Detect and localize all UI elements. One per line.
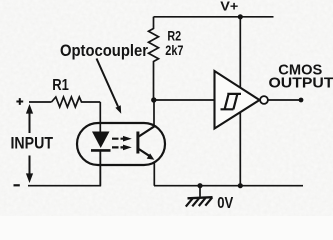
svg-text:0V: 0V xyxy=(217,195,233,212)
svg-text:INPUT: INPUT xyxy=(11,135,54,153)
transistor Q1 emitter xyxy=(138,149,149,156)
wire inverter bottom to 0V rail xyxy=(239,112,241,186)
light arrow 2 xyxy=(112,146,125,148)
wire collector up to junction xyxy=(153,100,155,127)
svg-text:V+: V+ xyxy=(220,0,238,13)
polarity arrow up xyxy=(29,112,31,133)
resistor R2 xyxy=(149,17,159,100)
LED D1 triangle xyxy=(92,132,110,149)
wire input top lead xyxy=(29,101,52,103)
wire LED cathode down xyxy=(99,150,101,185)
wire 0V bottom rail xyxy=(154,185,303,187)
wire junction to inverter input xyxy=(154,99,215,101)
node supply bottom junction xyxy=(238,183,243,188)
polarity arrow down xyxy=(29,156,31,175)
wire emitter down to 0V rail xyxy=(153,162,155,186)
wire supply vertical from V+ rail to inverter top xyxy=(239,17,241,88)
terminal - xyxy=(14,184,20,186)
op-amp U2 schmitt inverter triangle xyxy=(215,71,260,129)
label arrow to optocoupler xyxy=(97,59,119,107)
terminal + xyxy=(16,98,23,105)
hysteresis symbol xyxy=(221,94,242,109)
svg-text:2k7: 2k7 xyxy=(165,42,183,58)
node output terminal xyxy=(299,98,304,103)
resistor R1 xyxy=(52,97,101,107)
optocoupler U1 capsule xyxy=(77,123,165,165)
transistor Q1 collector xyxy=(138,126,155,137)
node junction R2/collector/inverter input xyxy=(151,97,156,102)
wire LED anode xyxy=(99,102,101,133)
node ground junction xyxy=(197,183,202,188)
ground symbol xyxy=(188,197,213,198)
inverter output bubble xyxy=(260,96,268,104)
wire input bottom lead xyxy=(28,150,100,186)
svg-text:Optocoupler: Optocoupler xyxy=(60,42,149,60)
svg-text:OUTPUT: OUTPUT xyxy=(269,76,333,92)
wire output xyxy=(268,99,301,101)
node V+ rail junction xyxy=(238,14,243,19)
LED D1 cathode bar xyxy=(91,149,111,152)
svg-text:R1: R1 xyxy=(52,77,69,94)
transistor Q1 base bar xyxy=(136,132,139,154)
ground stub xyxy=(199,186,201,197)
light arrow 1 xyxy=(112,138,125,140)
wire V+ top rail xyxy=(154,16,274,18)
